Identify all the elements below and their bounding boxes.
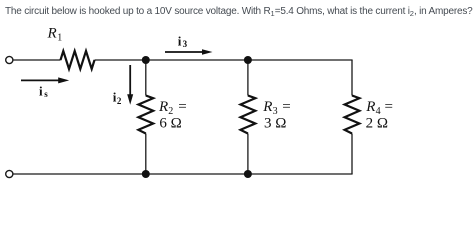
svg-text:R: R (158, 99, 168, 115)
svg-text:=: = (178, 99, 186, 115)
svg-text:3: 3 (183, 39, 188, 49)
svg-text:2: 2 (117, 96, 122, 106)
svg-text:3 Ω: 3 Ω (264, 116, 286, 132)
svg-text:R: R (365, 99, 375, 115)
svg-text:i: i (178, 33, 182, 48)
svg-text:=: = (385, 99, 393, 115)
svg-text:6 Ω: 6 Ω (159, 116, 181, 132)
svg-text:i: i (39, 83, 43, 98)
svg-text:s: s (44, 89, 48, 99)
svg-text:R: R (262, 99, 272, 115)
svg-text:R: R (47, 25, 57, 41)
svg-text:2 Ω: 2 Ω (366, 116, 388, 132)
svg-text:1: 1 (57, 32, 62, 43)
svg-text:=: = (282, 99, 290, 115)
